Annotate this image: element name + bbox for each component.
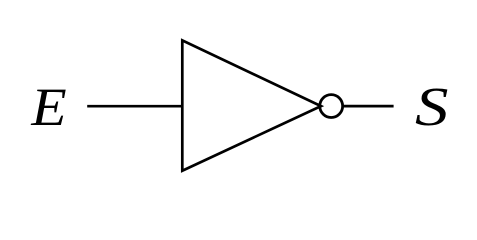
wire input [87,105,182,108]
wire output [343,105,394,108]
svg-text:E: E [30,78,66,138]
inverter gate U1 [182,40,321,170]
inversion bubble [320,95,343,118]
svg-text:S: S [415,76,448,137]
